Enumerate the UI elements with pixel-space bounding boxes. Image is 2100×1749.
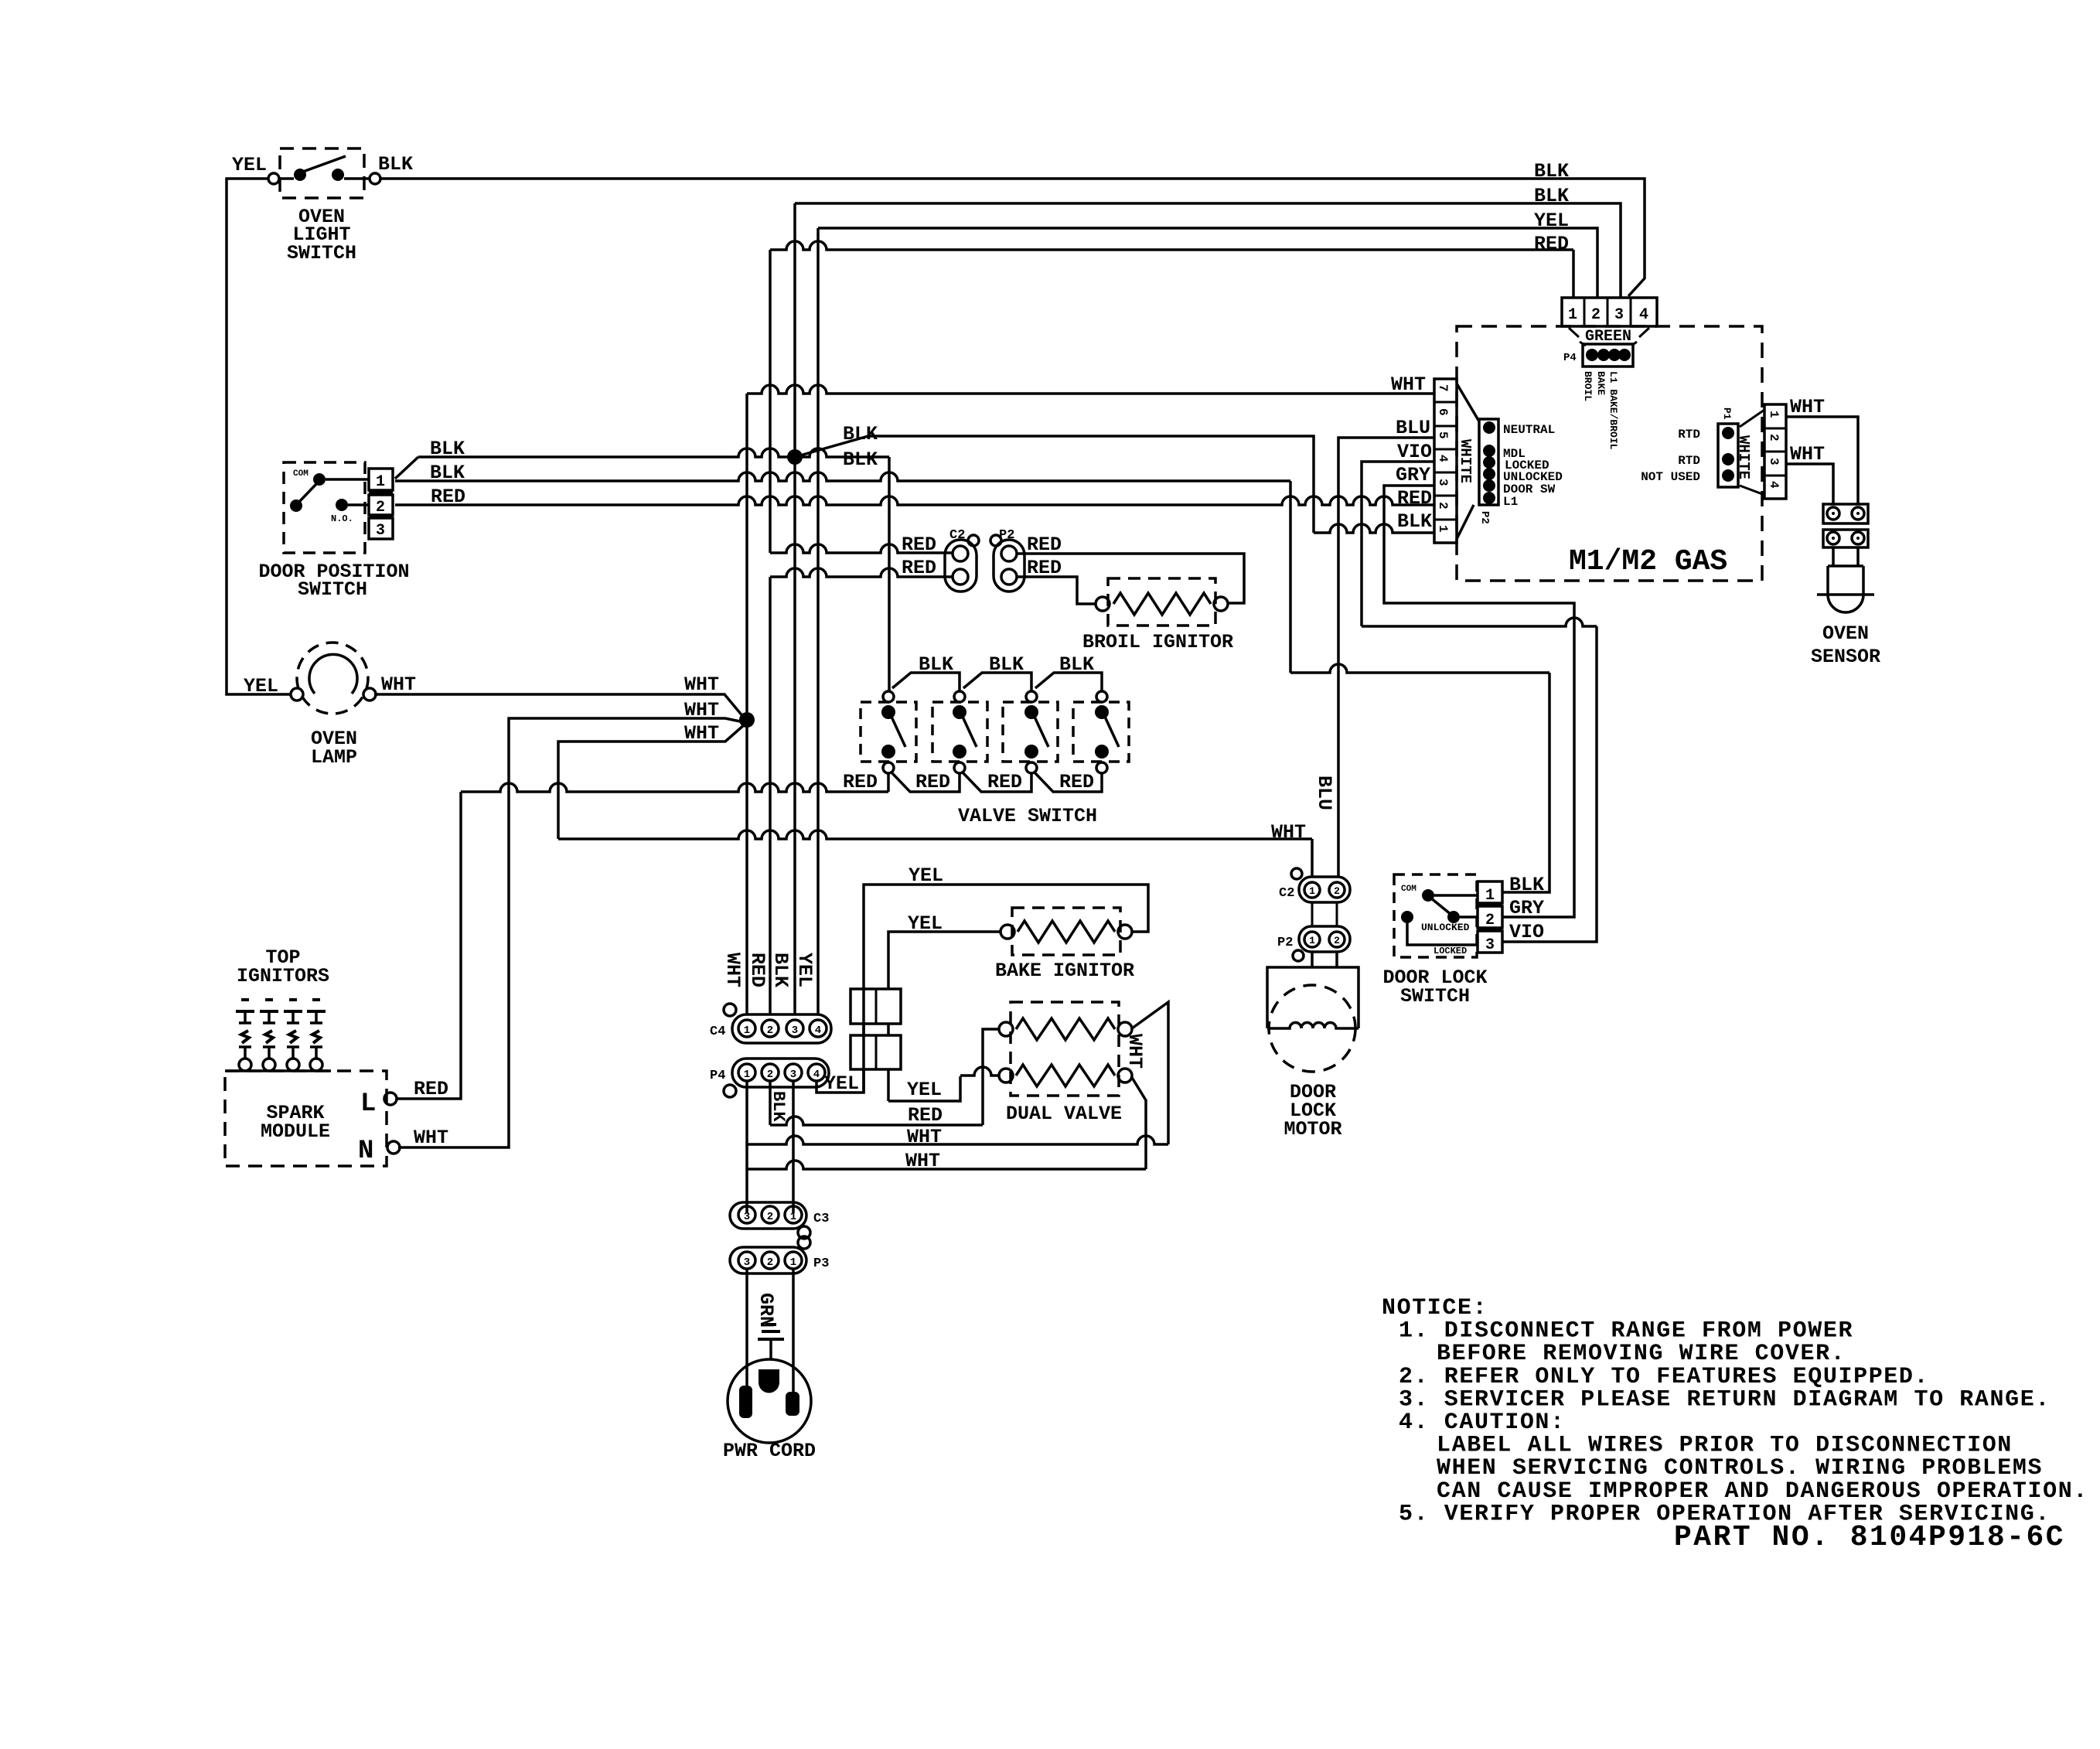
svg-text:GRY: GRY xyxy=(1396,464,1430,486)
svg-text:WHT: WHT xyxy=(1271,821,1306,844)
svg-text:BLK: BLK xyxy=(1509,874,1544,896)
broil ignitor xyxy=(1108,578,1215,626)
svg-text:WHT: WHT xyxy=(381,673,416,696)
wire BLK door position switch to door lock switch COM xyxy=(395,472,1290,481)
svg-text:C2: C2 xyxy=(1279,886,1294,901)
wire RED link valve switch 2-3 xyxy=(963,772,1031,792)
svg-text:BLK: BLK xyxy=(919,653,953,676)
svg-text:MODULE: MODULE xyxy=(261,1120,330,1143)
wire WHT P4 pin1 to dual valve and C3 xyxy=(745,1081,748,1213)
svg-text:P4: P4 xyxy=(710,1069,725,1083)
svg-text:2: 2 xyxy=(1334,885,1340,897)
wire WHT P3 pin3 to power cord xyxy=(745,1269,748,1386)
svg-text:BLK: BLK xyxy=(989,653,1024,676)
svg-text:3: 3 xyxy=(1436,479,1450,486)
wire RED door position switch pin2 to M1/M2 board pin 2 xyxy=(395,496,1434,505)
wire RED P2 pin2 to broil ignitor left xyxy=(1018,577,1096,604)
svg-text:3: 3 xyxy=(1767,458,1781,465)
svg-text:RED: RED xyxy=(1059,771,1094,793)
svg-text:2: 2 xyxy=(1767,434,1781,442)
wire BLK bus line 2 to connector pin 3 xyxy=(795,203,1621,297)
svg-text:P4: P4 xyxy=(1563,352,1577,364)
wire WHT vertical bus xyxy=(745,394,748,1014)
svg-text:PART NO. 8104P918-6C: PART NO. 8104P918-6C xyxy=(1674,1521,2065,1554)
svg-text:BLK: BLK xyxy=(843,448,878,471)
svg-text:BROIL IGNITOR: BROIL IGNITOR xyxy=(1082,631,1233,653)
wire GRY M1/M2 pin3 to door lock switch pin2 xyxy=(1384,486,1574,917)
svg-text:RED: RED xyxy=(908,1104,943,1127)
svg-text:2: 2 xyxy=(1334,935,1340,946)
svg-text:NEUTRAL: NEUTRAL xyxy=(1503,423,1555,437)
svg-text:YEL: YEL xyxy=(1534,210,1569,232)
svg-text:N.O.: N.O. xyxy=(331,513,353,524)
svg-text:1: 1 xyxy=(1436,525,1450,533)
wire RED bus line 4 to connector pin 1 xyxy=(770,241,1573,250)
svg-text:WHITE: WHITE xyxy=(1735,435,1752,479)
connector P2 strip with pins xyxy=(1479,419,1498,505)
wire WHT oven lamp to junction xyxy=(374,694,744,718)
svg-text:BROIL: BROIL xyxy=(1582,371,1594,401)
door lock motor xyxy=(1312,952,1337,967)
svg-text:SENSOR: SENSOR xyxy=(1811,646,1880,668)
svg-text:RTD: RTD xyxy=(1678,428,1700,442)
svg-text:2: 2 xyxy=(767,1025,773,1037)
wire WHT bus to M1/M2 board pin 7 xyxy=(747,385,1434,394)
wire WHT P1 pin1 to oven sensor xyxy=(1786,417,1858,504)
svg-text:LOCKED: LOCKED xyxy=(1434,946,1467,956)
wire RED P4 pin2 to dual valve xyxy=(769,1081,772,1125)
svg-text:1: 1 xyxy=(1485,887,1495,905)
svg-text:P1: P1 xyxy=(1721,407,1733,420)
svg-text:WHT: WHT xyxy=(684,673,719,696)
wire BLK link valve switch 3-4 xyxy=(1035,673,1102,690)
svg-text:RED: RED xyxy=(902,534,936,556)
funnel to P2 strip xyxy=(1457,384,1479,539)
svg-text:YEL: YEL xyxy=(909,864,943,887)
wire WHT P1 pin3 to oven sensor xyxy=(1786,464,1833,504)
valve switch 2 xyxy=(932,702,987,762)
svg-text:1: 1 xyxy=(1309,885,1315,897)
ground symbol xyxy=(769,1339,772,1359)
svg-text:BAKE IGNITOR: BAKE IGNITOR xyxy=(995,960,1134,982)
svg-text:NOT USED: NOT USED xyxy=(1641,470,1700,484)
connector P4 xyxy=(732,1059,829,1087)
svg-text:WHT: WHT xyxy=(1790,396,1825,418)
connector P3 xyxy=(730,1247,806,1273)
svg-text:VIO: VIO xyxy=(1509,921,1544,943)
wire RED link valve switch 3-4 xyxy=(1035,772,1102,792)
svg-text:GRN: GRN xyxy=(755,1293,777,1328)
svg-text:WHT: WHT xyxy=(1790,443,1825,465)
svg-text:2: 2 xyxy=(1485,912,1495,929)
svg-text:YEL: YEL xyxy=(907,1079,942,1101)
svg-text:3: 3 xyxy=(1614,306,1624,324)
svg-text:COM: COM xyxy=(1401,885,1416,894)
svg-text:1: 1 xyxy=(376,473,385,491)
wire BLK vertical bus xyxy=(793,203,796,1014)
connector C2 (door lock motor) xyxy=(1299,877,1350,902)
door position switch xyxy=(284,462,365,553)
svg-text:C3: C3 xyxy=(813,1212,829,1226)
svg-text:2: 2 xyxy=(767,1069,773,1081)
svg-text:1: 1 xyxy=(1767,411,1781,418)
wire VIO M1/M2 pin4 to door lock switch pin3 xyxy=(1362,462,1434,626)
wire WHT junction to spark module N xyxy=(398,718,744,1147)
svg-text:BLK: BLK xyxy=(1534,160,1569,182)
svg-text:YEL: YEL xyxy=(244,675,278,697)
svg-text:COM: COM xyxy=(293,469,309,479)
wire WHT junction to door lock motor C2 pin1 xyxy=(558,724,745,839)
svg-text:RED: RED xyxy=(1534,233,1569,255)
svg-text:6: 6 xyxy=(1436,408,1450,416)
svg-text:RED: RED xyxy=(414,1078,448,1100)
svg-text:OVEN: OVEN xyxy=(1822,622,1869,645)
svg-text:DUAL VALVE: DUAL VALVE xyxy=(1006,1103,1122,1125)
svg-text:2: 2 xyxy=(767,1256,773,1269)
svg-text:7: 7 xyxy=(1436,384,1450,392)
wire RED link valve switch 1-2 xyxy=(891,772,960,792)
wire YEL vertical bus xyxy=(816,228,820,1014)
svg-text:GRY: GRY xyxy=(1509,897,1544,919)
svg-text:L1 BAKE/BROIL: L1 BAKE/BROIL xyxy=(1607,371,1619,450)
svg-text:P2: P2 xyxy=(1277,936,1293,950)
oven sensor xyxy=(1823,504,1868,523)
svg-text:4: 4 xyxy=(1639,306,1648,324)
wire YEL to bake ignitor left xyxy=(888,932,1001,989)
wire BLK P4 pin3 to C3 pin1 xyxy=(792,1081,795,1213)
svg-text:BAKE: BAKE xyxy=(1595,371,1607,395)
connector P2 (door lock motor) xyxy=(1299,926,1350,952)
connector P2 (broil) xyxy=(994,540,1024,592)
svg-text:2: 2 xyxy=(376,499,385,517)
svg-text:SWITCH: SWITCH xyxy=(287,242,356,264)
wire BLK junction to M1/M2 board pin 1 xyxy=(795,436,1314,533)
svg-text:L: L xyxy=(360,1089,376,1119)
svg-text:BLK: BLK xyxy=(1397,510,1432,533)
svg-text:M1/M2 GAS: M1/M2 GAS xyxy=(1569,545,1727,578)
svg-text:1: 1 xyxy=(1568,306,1577,324)
door lock switch xyxy=(1394,874,1477,957)
connector C3 xyxy=(730,1202,806,1229)
svg-text:3: 3 xyxy=(792,1025,798,1037)
spark module xyxy=(225,1071,387,1166)
svg-text:5: 5 xyxy=(1436,431,1450,439)
svg-text:N: N xyxy=(358,1137,373,1166)
svg-text:BLK: BLK xyxy=(1059,653,1094,676)
valve switch 3 xyxy=(1003,702,1058,762)
svg-text:RED: RED xyxy=(1397,487,1432,510)
oven light switch xyxy=(280,148,364,198)
svg-text:RED: RED xyxy=(746,953,769,987)
wire RED feed to valve switches xyxy=(461,783,888,792)
svg-text:2: 2 xyxy=(1436,502,1450,510)
wire BLK link valve switch 2-3 xyxy=(963,673,1031,690)
wire YEL lower to dual valve lower-left xyxy=(888,1076,960,1101)
svg-text:3: 3 xyxy=(1485,936,1495,954)
connector C4 xyxy=(732,1014,831,1043)
wire YEL from oven light switch down to oven lamp xyxy=(227,179,291,694)
svg-text:P3: P3 xyxy=(813,1256,829,1271)
svg-text:WHT: WHT xyxy=(905,1150,940,1172)
wire BLK link valve switch 1-2 xyxy=(892,673,960,690)
igniter switch boxes upper pair xyxy=(851,989,901,1024)
svg-text:4: 4 xyxy=(1436,455,1450,462)
M1/M2 top connector 1-4 xyxy=(1562,298,1657,326)
svg-text:BLK: BLK xyxy=(769,953,792,987)
oven lamp xyxy=(297,643,368,714)
svg-text:VALVE SWITCH: VALVE SWITCH xyxy=(958,805,1097,827)
wire BLU M1/M2 pin5 to door lock motor C2 pin2 xyxy=(1338,438,1434,877)
connector column P1 pins 1-4 xyxy=(1740,410,1764,495)
wire BLK junction to valve switch 1 xyxy=(795,448,889,457)
svg-text:SWITCH: SWITCH xyxy=(298,578,367,601)
svg-text:MOTOR: MOTOR xyxy=(1284,1118,1341,1140)
svg-text:BLU: BLU xyxy=(1313,776,1335,810)
M1/M2 GAS control dashed box xyxy=(1457,326,1762,581)
svg-text:YEL: YEL xyxy=(824,1072,859,1095)
wire YEL top loop to bake ignitor right xyxy=(864,885,1148,989)
bake ignitor xyxy=(1012,908,1120,955)
svg-text:UNLOCKED: UNLOCKED xyxy=(1421,922,1470,933)
connector P4 strip on M1/M2 xyxy=(1580,342,1637,346)
svg-text:1: 1 xyxy=(744,1069,750,1081)
connector P1 strip xyxy=(1718,424,1738,487)
node WHT junction xyxy=(739,712,755,728)
svg-text:WHT: WHT xyxy=(721,953,744,987)
svg-text:PWR CORD: PWR CORD xyxy=(723,1440,816,1462)
svg-text:4: 4 xyxy=(1767,481,1781,489)
power cord plug xyxy=(728,1359,811,1443)
svg-text:C2: C2 xyxy=(949,528,965,543)
valve switch 1 xyxy=(861,702,916,762)
wire BLK from door position switch pin1 to junction xyxy=(395,457,418,479)
svg-text:C4: C4 xyxy=(710,1025,725,1039)
svg-text:BLK: BLK xyxy=(1534,185,1569,207)
wire BLK top bus line 1 to connector pin 4 xyxy=(380,179,1645,296)
wire RED P2 pin1 loop to broil ignitor right xyxy=(1018,554,1244,603)
svg-text:WHT: WHT xyxy=(1391,373,1426,396)
svg-text:1: 1 xyxy=(744,1025,750,1037)
wire RED vertical bus upper segment to broil connector xyxy=(769,250,772,553)
svg-text:BLU: BLU xyxy=(1396,417,1430,439)
door lock switch terminal block xyxy=(1478,881,1502,903)
svg-text:BLK: BLK xyxy=(378,153,413,176)
svg-text:YEL: YEL xyxy=(908,912,943,935)
svg-text:RED: RED xyxy=(987,771,1022,793)
wire RED vertical bus lower segment from broil connector xyxy=(770,568,953,577)
igniter switch boxes lower pair xyxy=(851,1035,901,1069)
svg-text:BLK: BLK xyxy=(769,1091,788,1122)
svg-text:2: 2 xyxy=(767,1211,773,1223)
svg-text:YEL: YEL xyxy=(232,154,267,176)
svg-text:4: 4 xyxy=(815,1025,821,1037)
valve switch 4 xyxy=(1073,702,1129,762)
svg-text:3: 3 xyxy=(744,1256,750,1269)
svg-text:RED: RED xyxy=(915,771,950,793)
svg-text:3: 3 xyxy=(790,1069,796,1081)
svg-text:RED: RED xyxy=(902,557,936,579)
svg-text:WHITE: WHITE xyxy=(1457,439,1474,483)
dual valve xyxy=(1011,1002,1119,1096)
svg-text:P2: P2 xyxy=(1478,511,1491,524)
svg-text:4: 4 xyxy=(813,1069,820,1081)
wire YEL bus line 3 to connector pin 2 xyxy=(818,228,1597,297)
wire BLK P3 pin1 to power cord xyxy=(792,1269,795,1392)
svg-text:WHT: WHT xyxy=(414,1127,448,1149)
svg-text:VIO: VIO xyxy=(1397,441,1432,463)
svg-text:P2: P2 xyxy=(999,528,1014,543)
svg-text:YEL: YEL xyxy=(793,953,816,987)
svg-text:3: 3 xyxy=(376,522,385,540)
svg-text:2: 2 xyxy=(1591,306,1601,324)
svg-text:WHT: WHT xyxy=(1123,1034,1146,1069)
wire YEL P4 pin4 to igniter switch xyxy=(816,989,864,1093)
svg-text:RED: RED xyxy=(843,771,878,793)
svg-text:1: 1 xyxy=(1309,935,1315,946)
svg-text:RTD: RTD xyxy=(1678,454,1700,468)
svg-text:L1: L1 xyxy=(1503,495,1518,509)
svg-text:3: 3 xyxy=(744,1211,750,1223)
wire RED spark module L to valve switches xyxy=(397,792,461,1099)
node BLK junction on black bus xyxy=(787,449,803,465)
connector C2 (broil) xyxy=(945,540,977,592)
connector column P2 pins 7-1 xyxy=(1434,379,1457,543)
svg-text:SWITCH: SWITCH xyxy=(1400,985,1470,1007)
wire legs between igniter switch pairs xyxy=(864,1024,888,1035)
svg-text:1: 1 xyxy=(790,1211,796,1223)
svg-text:WHT: WHT xyxy=(907,1126,942,1148)
door position switch terminal block xyxy=(369,469,393,490)
svg-text:1: 1 xyxy=(790,1256,796,1269)
svg-text:IGNITORS: IGNITORS xyxy=(237,965,329,987)
svg-text:LAMP: LAMP xyxy=(311,746,357,769)
